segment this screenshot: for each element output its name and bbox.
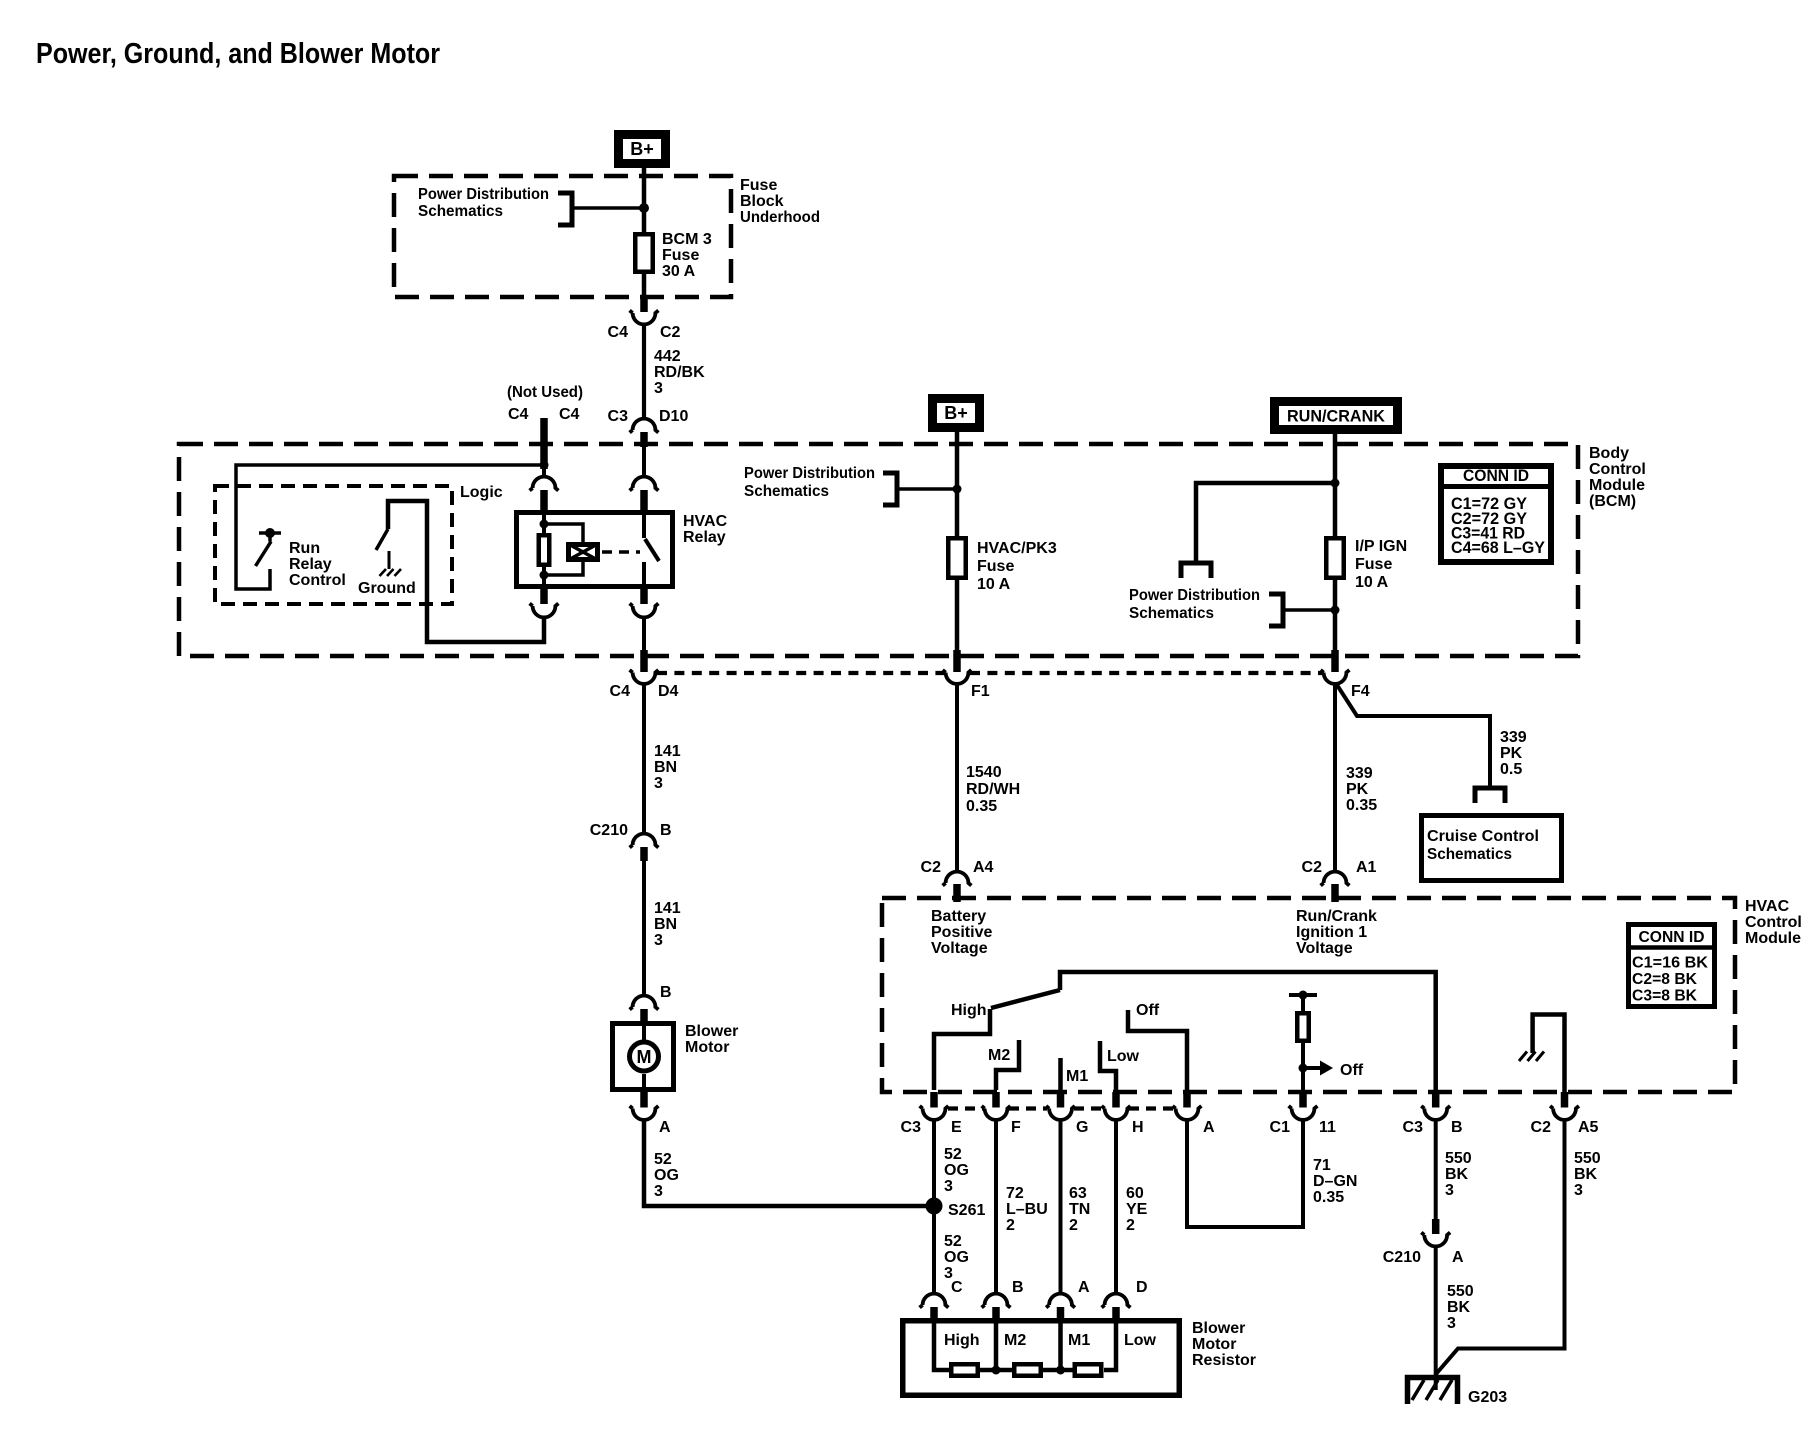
label 71 D-GN 0.35	[1313, 1157, 1357, 1206]
pin F1	[953, 650, 961, 672]
junction run/crank upper	[1331, 479, 1340, 488]
wire 339 PK 0.5 branch to cruise	[1337, 685, 1490, 788]
label Body Control Module (BCM)	[1589, 445, 1646, 510]
label 550 BK 3 (A5)	[1574, 1150, 1601, 1199]
label Fuse Block Underhood	[740, 177, 820, 226]
label HVAC/PK3 Fuse 10 A	[977, 540, 1057, 593]
junction B+ feed BCM	[953, 485, 962, 494]
svg-text:Control: Control	[1589, 461, 1646, 478]
fuse HVAC/PK3 10A	[948, 538, 966, 578]
label 60 YE 2	[1126, 1185, 1148, 1234]
svg-text:BK: BK	[1447, 1299, 1471, 1316]
svg-text:30 A: 30 A	[662, 263, 696, 280]
svg-text:Logic: Logic	[460, 484, 503, 501]
label BCM 3 Fuse 30 A	[662, 231, 712, 280]
label 442 RD/BK 3	[654, 348, 705, 397]
svg-text:M2: M2	[988, 1047, 1010, 1064]
wire 72 L-BU 2	[994, 1120, 998, 1294]
relay switch top contact	[642, 511, 646, 538]
svg-text:339: 339	[1346, 765, 1373, 782]
svg-text:C4=68 L–GY: C4=68 L–GY	[1451, 539, 1545, 557]
svg-text:Module: Module	[1589, 477, 1645, 494]
wire logic to run relay control	[236, 465, 544, 589]
label Run Relay Control	[289, 540, 346, 589]
svg-text:C2: C2	[921, 859, 942, 876]
label 339 PK 0.35	[1346, 765, 1377, 814]
svg-text:C2: C2	[660, 324, 681, 341]
relay pin 4 socket	[630, 603, 659, 617]
svg-text:Motor: Motor	[685, 1039, 729, 1056]
svg-text:F1: F1	[971, 683, 990, 700]
svg-text:L–BU: L–BU	[1006, 1201, 1048, 1218]
label 72 L-BU 2	[1006, 1185, 1048, 1234]
blower switch Off contact post	[1128, 1010, 1187, 1090]
label 1540 RD/WH 0.35	[966, 764, 1020, 815]
motor M symbol	[630, 1042, 659, 1071]
svg-text:0.5: 0.5	[1500, 761, 1522, 778]
CONN ID table (HVAC)	[1626, 925, 1717, 1007]
connector C4|D4 terminal	[630, 670, 659, 684]
blower motor top lead	[642, 1022, 646, 1040]
relay pin 3 socket	[630, 477, 659, 491]
relay coil bottom junction	[540, 571, 549, 580]
svg-text:D: D	[1136, 1279, 1148, 1296]
connector C4|C2 terminal	[630, 310, 659, 324]
blower switch M1 contact post	[1058, 1058, 1063, 1090]
svg-text:Positive: Positive	[931, 924, 992, 941]
label HVAC Control Module	[1745, 898, 1802, 947]
label 52 OG 3 (upper)	[944, 1146, 969, 1195]
pin D (resistor)	[1112, 1307, 1120, 1320]
junction run/crank lower	[1331, 606, 1340, 615]
svg-text:BN: BN	[654, 916, 677, 933]
label Power Distribution Schematics (fuse block)	[418, 186, 549, 220]
svg-text:Relay: Relay	[683, 529, 726, 546]
svg-text:B: B	[1012, 1279, 1024, 1296]
svg-text:D4: D4	[658, 683, 679, 700]
relay suppressor box with X	[568, 544, 599, 561]
svg-text:C4: C4	[508, 406, 529, 423]
connector C2|A1 terminal	[1321, 872, 1350, 886]
wire 141 BN 3 (lower)	[642, 860, 646, 995]
svg-text:PK: PK	[1500, 745, 1523, 762]
pin A4	[953, 884, 961, 902]
wire 52 OG 3 (E to C)	[932, 1120, 936, 1294]
svg-text:C3=8 BK: C3=8 BK	[1632, 988, 1698, 1005]
svg-text:B+: B+	[630, 139, 654, 159]
blower switch Low contact post	[1100, 1041, 1116, 1090]
pin D10 (BCM)	[640, 432, 648, 447]
svg-text:I/P IGN: I/P IGN	[1355, 538, 1407, 555]
blower switch common bus to B	[1060, 972, 1436, 1092]
connector terminal B	[1421, 1106, 1450, 1120]
fuse I/P IGN 10A	[1326, 538, 1344, 578]
relay mechanical linkage (dashed)	[602, 550, 640, 554]
svg-text:S261: S261	[948, 1202, 985, 1219]
svg-text:141: 141	[654, 743, 681, 760]
wire resistor to pin 11	[1301, 1043, 1305, 1090]
svg-text:A4: A4	[973, 859, 994, 876]
wire bracket to ign wire	[1284, 608, 1331, 612]
svg-text:F: F	[1011, 1119, 1021, 1136]
logic dashed box	[215, 486, 452, 604]
resistor R-m2	[1014, 1364, 1041, 1376]
svg-text:RUN/CRANK: RUN/CRANK	[1287, 407, 1386, 426]
pin A (resistor)	[1057, 1307, 1065, 1320]
svg-text:OG: OG	[944, 1162, 969, 1179]
svg-text:C4: C4	[559, 406, 580, 423]
svg-text:Blower: Blower	[685, 1023, 738, 1040]
label 550 BK 3 (G203)	[1447, 1283, 1474, 1332]
pin A5 (HVAC module)	[1561, 1092, 1569, 1108]
resistor R-high	[951, 1364, 978, 1376]
label Battery Positive Voltage	[931, 908, 992, 957]
svg-text:72: 72	[1006, 1185, 1024, 1202]
ground symbol (logic)	[380, 569, 402, 576]
svg-text:Ground: Ground	[358, 580, 416, 597]
wire 442 RD/BK 3	[642, 324, 646, 419]
label 52 OG 3 (lower)	[944, 1233, 969, 1282]
svg-text:3: 3	[1447, 1315, 1456, 1332]
off-page terminal (run/crank feed)	[1181, 563, 1211, 578]
wire D10 to relay pin 3 socket	[642, 447, 646, 477]
wire B+ to HVAC PK3 fuse to F1	[955, 430, 960, 652]
svg-text:550: 550	[1445, 1150, 1472, 1167]
label Blower Motor	[685, 1023, 738, 1056]
svg-text:HVAC: HVAC	[1745, 898, 1790, 915]
svg-text:Power Distribution: Power Distribution	[744, 465, 875, 482]
svg-text:Voltage: Voltage	[931, 940, 988, 957]
ground switch blade	[376, 529, 388, 550]
svg-text:Schematics: Schematics	[1129, 605, 1214, 622]
pin A1	[1331, 884, 1339, 902]
svg-text:52: 52	[944, 1146, 962, 1163]
svg-text:C: C	[951, 1279, 963, 1296]
svg-text:BK: BK	[1574, 1166, 1598, 1183]
svg-text:HVAC/PK3: HVAC/PK3	[977, 540, 1057, 557]
pin G (HVAC module)	[1057, 1092, 1065, 1108]
svg-text:0.35: 0.35	[966, 798, 997, 815]
svg-text:71: 71	[1313, 1157, 1331, 1174]
connector terminal E	[920, 1106, 949, 1120]
svg-text:3: 3	[654, 1183, 663, 1200]
relay suppressor bottom branch	[544, 562, 583, 575]
svg-text:11: 11	[1319, 1119, 1336, 1136]
svg-text:B: B	[1451, 1119, 1463, 1136]
connector C210|A terminal	[1421, 1232, 1450, 1246]
svg-text:BK: BK	[1445, 1166, 1469, 1183]
relay coil K (HVAC relay)	[539, 535, 550, 565]
svg-text:Fuse: Fuse	[1355, 556, 1392, 573]
svg-text:M2: M2	[1004, 1332, 1026, 1349]
ign wiper dot	[1299, 991, 1308, 1000]
pin D4	[640, 650, 648, 672]
cruise control schematics box	[1422, 816, 1562, 881]
connector terminal D (resistor)	[1102, 1294, 1131, 1308]
connector F4 terminal	[1321, 670, 1350, 684]
pin C (resistor)	[930, 1307, 938, 1320]
resistor lead C	[934, 1318, 949, 1370]
resistor R-m1	[1075, 1364, 1102, 1376]
relay coil top junction	[540, 520, 549, 529]
ground contact lead	[388, 551, 391, 569]
svg-text:Run/Crank: Run/Crank	[1296, 908, 1377, 925]
off-page ref bracket (power distribution)	[558, 193, 572, 225]
svg-text:A1: A1	[1356, 859, 1377, 876]
svg-text:D10: D10	[659, 408, 688, 425]
svg-text:Battery: Battery	[931, 908, 986, 925]
pin B (HVAC module)	[1432, 1092, 1440, 1108]
svg-text:PK: PK	[1346, 781, 1369, 798]
pin C210 blower side	[640, 847, 648, 861]
svg-text:C4: C4	[608, 324, 629, 341]
ign wiper bar	[1289, 993, 1317, 997]
connector terminal A	[1173, 1106, 1202, 1120]
svg-text:3: 3	[654, 380, 663, 397]
svg-text:Cruise Control: Cruise Control	[1427, 828, 1539, 845]
svg-text:OG: OG	[944, 1249, 969, 1266]
svg-text:3: 3	[944, 1178, 953, 1195]
relay suppressor top branch	[544, 524, 583, 542]
svg-text:Control: Control	[1745, 914, 1802, 931]
relay pin 1 socket	[530, 477, 559, 491]
resistor lead B	[994, 1318, 999, 1370]
label I/P IGN Fuse 10 A	[1355, 538, 1407, 591]
svg-text:M: M	[637, 1047, 652, 1067]
svg-text:Fuse: Fuse	[740, 177, 777, 194]
connector terminal A (resistor)	[1046, 1294, 1075, 1308]
connector B terminal (blower motor)	[630, 996, 659, 1010]
wire B+ to BCM3 fuse	[642, 166, 647, 309]
connector terminal G	[1046, 1106, 1075, 1120]
svg-text:C1: C1	[1270, 1119, 1291, 1136]
svg-text:Underhood: Underhood	[740, 209, 820, 226]
off-page ref bracket (power distribution, ign)	[1269, 594, 1283, 626]
splice S261	[926, 1198, 943, 1215]
svg-text:High: High	[951, 1002, 987, 1019]
svg-text:C3: C3	[901, 1119, 922, 1136]
svg-text:CONN ID: CONN ID	[1639, 929, 1705, 946]
svg-text:HVAC: HVAC	[683, 513, 728, 530]
off-page terminal (cruise control)	[1475, 788, 1505, 803]
connector terminal 11	[1289, 1106, 1318, 1120]
svg-text:Schematics: Schematics	[744, 483, 829, 500]
pin A (HVAC module)	[1183, 1092, 1191, 1108]
wire 71 D-GN 0.35 (11 to A)	[1187, 1120, 1303, 1227]
svg-text:2: 2	[1069, 1217, 1078, 1234]
svg-text:F4: F4	[1351, 683, 1370, 700]
off position arrow	[1303, 1061, 1333, 1076]
svg-text:Run: Run	[289, 540, 320, 557]
svg-text:3: 3	[654, 775, 663, 792]
connector terminal F	[982, 1106, 1011, 1120]
svg-text:10 A: 10 A	[1355, 574, 1389, 591]
svg-text:3: 3	[1574, 1182, 1583, 1199]
label HVAC Relay	[683, 513, 728, 546]
svg-text:2: 2	[1006, 1217, 1015, 1234]
svg-text:Fuse: Fuse	[662, 247, 699, 264]
svg-text:M1: M1	[1066, 1068, 1088, 1085]
fuse BCM 3 30A	[635, 234, 653, 272]
svg-text:Low: Low	[1124, 1332, 1157, 1349]
svg-text:Blower: Blower	[1192, 1320, 1245, 1337]
wire bracket to B+ wire	[898, 487, 953, 491]
svg-text:C3: C3	[608, 408, 629, 425]
svg-text:E: E	[951, 1119, 962, 1136]
svg-text:339: 339	[1500, 729, 1527, 746]
blower motor bottom lead	[642, 1074, 646, 1092]
pin C2 (fuse block)	[640, 297, 648, 312]
connector row dotted line (HVAC C3)	[948, 1106, 1174, 1110]
pin A (blower motor)	[640, 1092, 648, 1108]
svg-text:Power Distribution: Power Distribution	[418, 186, 549, 203]
svg-text:D–GN: D–GN	[1313, 1173, 1357, 1190]
svg-text:C210: C210	[1383, 1249, 1421, 1266]
resistor bus 2	[1043, 1368, 1073, 1373]
svg-text:A: A	[1078, 1279, 1090, 1296]
svg-text:Body: Body	[1589, 445, 1629, 462]
label 52 OG 3 (blower)	[654, 1151, 679, 1200]
junction BCM logic node	[540, 461, 549, 470]
wire bracket to B+ feed	[573, 206, 640, 210]
svg-text:B: B	[660, 822, 672, 839]
svg-text:Schematics: Schematics	[1427, 846, 1512, 863]
connector terminal B (resistor)	[982, 1294, 1011, 1308]
svg-text:Relay: Relay	[289, 556, 332, 573]
svg-text:C3: C3	[1403, 1119, 1424, 1136]
blower switch M2 contact post	[996, 1040, 1019, 1090]
svg-text:M1: M1	[1068, 1332, 1090, 1349]
wire to relay pin1 socket	[542, 465, 546, 477]
connector C2|A4 terminal	[943, 872, 972, 886]
svg-text:141: 141	[654, 900, 681, 917]
pin F4	[1331, 650, 1339, 672]
blower motor box	[613, 1024, 674, 1090]
svg-text:Ignition 1: Ignition 1	[1296, 924, 1367, 941]
pin H (HVAC module)	[1112, 1092, 1120, 1108]
svg-text:Fuse: Fuse	[977, 558, 1014, 575]
svg-text:A5: A5	[1578, 1119, 1599, 1136]
label 339 PK 0.5	[1500, 729, 1527, 778]
relay coil bottom lead	[542, 567, 546, 589]
label 550 BK 3 (B)	[1445, 1150, 1472, 1199]
label Power Distribution Schematics (B+)	[744, 465, 875, 500]
svg-text:2: 2	[1126, 1217, 1135, 1234]
svg-text:C1=16 BK: C1=16 BK	[1632, 955, 1709, 972]
wire 550 BK 3 (B)	[1434, 1120, 1438, 1221]
svg-text:RD/BK: RD/BK	[654, 364, 705, 381]
ground G203	[1408, 1378, 1458, 1405]
svg-text:H: H	[1132, 1119, 1144, 1136]
svg-text:G203: G203	[1468, 1389, 1507, 1406]
wire 60 YE 2	[1114, 1120, 1118, 1294]
svg-text:Module: Module	[1745, 930, 1801, 947]
svg-text:OG: OG	[654, 1167, 679, 1184]
connector row dotted line (BCM harness)	[657, 671, 1322, 675]
svg-text:Block: Block	[740, 193, 784, 210]
body control module (BCM) dashed box	[179, 444, 1578, 656]
resistor (HVAC module, ign)	[1297, 1013, 1309, 1041]
wire ground switch to relay coil	[388, 501, 544, 642]
wire 52 OG 3 (blower to S261)	[644, 1120, 930, 1206]
label 141 BN 3 (lower)	[654, 900, 681, 949]
blower motor resistor box	[903, 1321, 1180, 1396]
svg-text:Resistor: Resistor	[1192, 1352, 1256, 1369]
resistor lead A	[1058, 1318, 1063, 1370]
svg-text:BN: BN	[654, 759, 677, 776]
wire 63 TN 2	[1059, 1120, 1063, 1294]
junction resistor bus 1	[992, 1366, 1001, 1375]
pin C210 B-side	[1432, 1219, 1440, 1234]
svg-text:Voltage: Voltage	[1296, 940, 1353, 957]
svg-text:C2: C2	[1531, 1119, 1552, 1136]
relay pin 1	[540, 490, 548, 511]
svg-text:Power Distribution: Power Distribution	[1129, 587, 1260, 604]
svg-text:B+: B+	[944, 403, 968, 423]
svg-text:(Not Used): (Not Used)	[507, 384, 583, 401]
off-page ref bracket (power distribution, B+)	[883, 473, 897, 505]
connector terminal A5	[1550, 1106, 1579, 1120]
svg-text:Control: Control	[289, 572, 346, 589]
blower switch High contact post	[934, 1009, 990, 1090]
label Blower Motor Resistor	[1192, 1320, 1256, 1369]
label 63 TN 2	[1069, 1185, 1090, 1234]
connector F1 terminal	[943, 670, 972, 684]
svg-text:G: G	[1076, 1119, 1088, 1136]
svg-text:C4: C4	[610, 683, 631, 700]
svg-text:Off: Off	[1340, 1062, 1364, 1079]
connector C3|D10 terminal	[630, 419, 659, 433]
power feed RUN/CRANK	[1270, 397, 1402, 434]
power feed B+ (BCM)	[928, 394, 984, 432]
junction at fuse block feed	[639, 203, 649, 213]
connector C210|B terminal	[630, 834, 659, 848]
pin B (blower motor)	[640, 1009, 648, 1022]
svg-text:B: B	[660, 984, 672, 1001]
relay coil top lead	[542, 511, 546, 533]
svg-text:1540: 1540	[966, 764, 1002, 781]
svg-text:A: A	[1452, 1249, 1464, 1266]
svg-text:Off: Off	[1136, 1002, 1160, 1019]
svg-text:550: 550	[1574, 1150, 1601, 1167]
svg-text:(BCM): (BCM)	[1589, 493, 1636, 510]
pin C4 not used stub	[540, 418, 548, 469]
svg-text:C2: C2	[1302, 859, 1323, 876]
relay pin 4	[640, 589, 648, 604]
svg-text:60: 60	[1126, 1185, 1144, 1202]
pin F (HVAC module)	[992, 1092, 1000, 1108]
HVAC relay box	[517, 513, 673, 587]
svg-text:Power, Ground, and Blower Moto: Power, Ground, and Blower Motor	[36, 38, 440, 70]
wire 550 BK 3 (to G203)	[1434, 1246, 1438, 1390]
wire run/crank branch to off-page	[1196, 483, 1335, 563]
resistor lead D	[1104, 1318, 1116, 1370]
junction resistor bus 2	[1056, 1366, 1065, 1375]
relay switch blade	[645, 539, 659, 561]
svg-text:0.35: 0.35	[1313, 1189, 1344, 1206]
svg-text:52: 52	[654, 1151, 672, 1168]
label Power Distribution Schematics (ign)	[1129, 587, 1260, 622]
svg-text:A: A	[659, 1119, 671, 1136]
svg-text:52: 52	[944, 1233, 962, 1250]
blower switch wiper blade	[991, 990, 1060, 1008]
svg-text:Low: Low	[1107, 1048, 1140, 1065]
label Run/Crank Ignition 1 Voltage	[1296, 908, 1377, 957]
wire relay pin 4 to D4	[642, 617, 646, 652]
svg-text:CONN ID: CONN ID	[1463, 466, 1529, 485]
svg-text:RD/WH: RD/WH	[966, 781, 1020, 798]
svg-text:YE: YE	[1126, 1201, 1148, 1218]
